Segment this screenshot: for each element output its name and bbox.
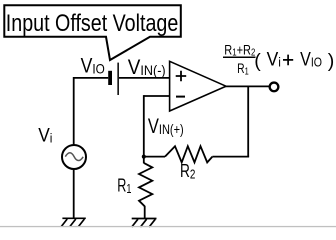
wire: inverting input vertical down to node [143,95,145,163]
wire: left node horizontal to battery [74,77,109,79]
wire: source to ground [73,169,75,219]
wire: R2 to feedback corner [212,156,249,158]
callout box Input Offset Voltage [4,5,181,60]
battery VIO thin plate [117,63,119,95]
svg-text:R1+R2: R1+R2 [224,41,255,58]
ground under Vi [61,218,86,226]
resistor R1 zigzag [139,163,152,206]
battery VIO thick plate [108,71,112,85]
ground under R1 [132,219,157,228]
svg-text:): ) [328,50,335,72]
wire: op-amp inverting input stub [144,95,170,97]
formula fraction bar [223,56,256,58]
op-amp plus sign [176,71,187,82]
wire: R1 to ground stub [144,206,146,219]
wire: node to R2 [144,156,165,158]
wire: op-amp output [226,85,270,87]
svg-text:(: ( [254,50,261,72]
wire: feedback vertical [247,86,249,156]
output terminal open circle [270,83,279,92]
svg-text:Input Offset Voltage: Input Offset Voltage [6,10,179,37]
wire: left vertical down to source [73,77,75,145]
bottom gray rule [0,226,336,227]
op-amp minus sign [176,96,185,98]
wire: battery to op-amp non-inv input [119,77,170,79]
op-amp U1 [170,61,226,111]
source Vi sine wave [65,153,83,161]
resistor R2 zigzag [165,146,212,162]
node junction dot [142,155,146,159]
source Vi circle [62,145,86,169]
